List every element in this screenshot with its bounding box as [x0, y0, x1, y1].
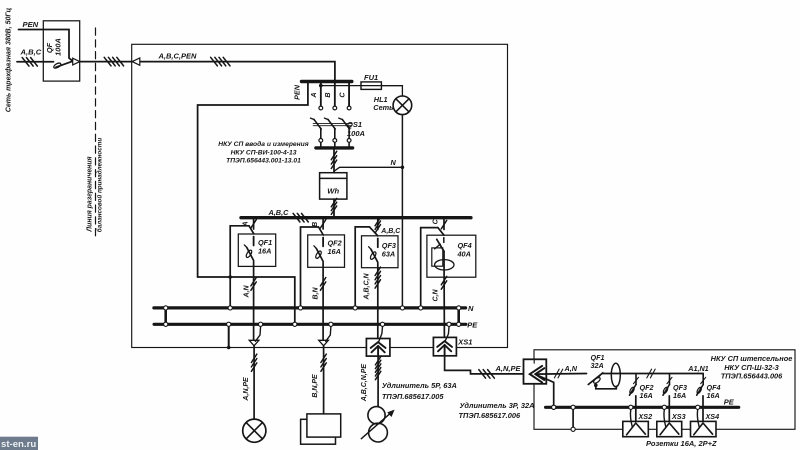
- breaker QF blade and hook: [53, 62, 62, 69]
- RCD trip box QF4: [432, 248, 443, 266]
- svg-text:A,N,PE: A,N,PE: [495, 364, 522, 373]
- PE hook X1: [255, 327, 260, 342]
- breaker QF2 box: [308, 235, 345, 267]
- svg-text:Сеть: Сеть: [373, 103, 393, 112]
- wire N link: [334, 167, 402, 171]
- wire QF4 N lead: [421, 228, 438, 306]
- breaker QF3 box: [362, 236, 399, 268]
- breaker QF1 sub: [588, 374, 602, 385]
- lamp HL1: [393, 96, 412, 115]
- breaker QF3 symbol: [369, 238, 378, 262]
- PE hook X2: [326, 327, 331, 342]
- cable extension 5P: [377, 356, 379, 406]
- svg-text:B,N: B,N: [312, 287, 319, 300]
- svg-text:C: C: [337, 92, 346, 98]
- svg-text:A,B,C,N: A,B,C,N: [364, 273, 371, 301]
- wire PE to frame: [228, 326, 230, 347]
- svg-text:16A: 16A: [258, 247, 271, 256]
- wire QF1 N lead: [230, 226, 249, 306]
- svg-text:ТПЭП.656443.006: ТПЭП.656443.006: [721, 372, 783, 381]
- wire N-PE link: [198, 277, 295, 322]
- heater load rectangles: [301, 419, 336, 444]
- lamp load: [243, 419, 266, 442]
- svg-text:N: N: [391, 158, 397, 167]
- svg-text:A,B,C: A,B,C: [268, 208, 290, 217]
- hash 2 on QF2 out: [320, 278, 325, 286]
- svg-text:FU1: FU1: [364, 73, 378, 82]
- svg-text:C,N: C,N: [433, 289, 440, 302]
- breaker QF3 sub: [662, 374, 672, 396]
- drop A: [320, 83, 322, 106]
- feeder QF1 drop from bus: [253, 219, 255, 229]
- hash 2 on QF1 out: [251, 278, 256, 286]
- main panel box: [132, 44, 508, 347]
- svg-text:32A: 32A: [591, 361, 604, 370]
- svg-text:63A: 63A: [382, 250, 395, 259]
- plug X1 (lighting): [249, 340, 259, 346]
- hash 2 on QF4 out: [441, 276, 446, 284]
- breaker QF2 sub: [629, 374, 639, 396]
- wire PE to frame sub: [572, 407, 574, 427]
- variable autotransformer: [368, 407, 385, 424]
- wire entry A,B,C,PEN: [140, 62, 335, 80]
- hash 1 on QF1 drop: [251, 220, 256, 228]
- svg-text:A: A: [309, 92, 318, 98]
- boundary dashed line: [95, 28, 97, 238]
- svg-text:балансовой принадлежности: балансовой принадлежности: [96, 138, 104, 233]
- svg-text:A,N: A,N: [564, 364, 578, 373]
- blade QF1 plug-in: [249, 226, 254, 234]
- svg-text:XS2: XS2: [638, 412, 653, 421]
- node PE frame bond: [227, 346, 231, 350]
- socket XS2 box: [623, 421, 649, 436]
- wire A,B,C from supply: [17, 61, 54, 63]
- bus N: [154, 306, 466, 309]
- wire Wh to bus: [333, 199, 335, 217]
- svg-text:16A: 16A: [673, 391, 686, 400]
- N-PE bond right: [457, 308, 460, 324]
- wire XS1 to extension 3P: [445, 356, 524, 374]
- QS1 linkage bar: [313, 123, 351, 125]
- hash 3 on lamp cable: [251, 354, 256, 362]
- svg-text:Удлинитель 5Р, 63А: Удлинитель 5Р, 63А: [382, 381, 457, 390]
- wire N riser from lamp: [401, 115, 403, 307]
- cable to lamp: [253, 346, 255, 419]
- svg-text:НКУ СП-ВИ-100-4-13: НКУ СП-ВИ-100-4-13: [231, 149, 297, 156]
- socket XS2 contacts: [627, 423, 646, 435]
- svg-text:B: B: [323, 92, 332, 97]
- blade QF3 plug-in: [370, 227, 378, 236]
- node QF2 N riser terminal: [298, 306, 302, 310]
- PE hook XS1: [446, 327, 450, 340]
- svg-text:QF: QF: [45, 42, 54, 53]
- hash 1 on QF2 drop: [320, 220, 325, 228]
- node PE frame terminal: [227, 322, 231, 326]
- svg-text:16A: 16A: [707, 391, 720, 400]
- plug box socket inlet: [524, 359, 547, 384]
- svg-text:PEN: PEN: [293, 84, 302, 100]
- wire QF2 sub out: [635, 396, 637, 423]
- breaker QF1 box: [238, 234, 275, 266]
- bus PE: [154, 323, 466, 326]
- node link junction QF1 riser: [228, 275, 232, 279]
- svg-text:A,B,C,PEN: A,B,C,PEN: [158, 52, 198, 61]
- wire PEN from supply: [19, 30, 74, 62]
- wire QF4 sub out: [702, 396, 704, 423]
- svg-text:PE: PE: [467, 320, 478, 329]
- PEN bus bar: [302, 80, 352, 83]
- distribution bus A,B,C: [241, 216, 471, 219]
- blade QF2 plug-in: [319, 227, 324, 235]
- hash 4 on entry wire: [211, 57, 218, 66]
- svg-text:XS3: XS3: [671, 412, 686, 421]
- feeder QF2 drop from bus: [322, 219, 324, 229]
- hash 3 above Wh: [331, 151, 336, 159]
- svg-text:QS1: QS1: [347, 120, 362, 129]
- switch QS1 pole A: [311, 83, 323, 148]
- PE pick XS2: [630, 410, 632, 428]
- hash 3 on QF3 drop: [375, 217, 380, 225]
- svg-text:st-en.ru: st-en.ru: [1, 439, 36, 450]
- svg-text:Сеть трехфазная 380В, 50Гц: Сеть трехфазная 380В, 50Гц: [6, 7, 13, 112]
- wire to FU1: [321, 85, 403, 87]
- bus PE sub: [546, 406, 739, 409]
- svg-text:B: B: [312, 222, 319, 227]
- svg-text:Розетки 16А, 2P+Z: Розетки 16А, 2P+Z: [646, 439, 717, 448]
- svg-text:НКУ СП ввода и измерения: НКУ СП ввода и измерения: [218, 140, 308, 148]
- QS1 lower bus bar: [316, 146, 353, 149]
- RCD torus QF4: [435, 260, 454, 270]
- hash 4 on wire before boundary: [104, 57, 111, 66]
- hash 3 on A,B,C supply wire: [22, 58, 29, 67]
- drop B: [334, 83, 336, 106]
- wire FU1 to HL1: [381, 86, 402, 96]
- wire QF3 out: [377, 263, 379, 342]
- svg-text:16A: 16A: [328, 247, 341, 256]
- wire QF2 out: [322, 263, 324, 341]
- hash 4 on QF3 out: [375, 267, 380, 275]
- svg-text:НКУ СП-Ш-32-3: НКУ СП-Ш-32-3: [724, 363, 779, 372]
- wire QF1 to bus A1,N1: [602, 373, 703, 375]
- node FU1 tap on drop A: [319, 84, 323, 88]
- drop C: [348, 83, 350, 106]
- wire QF2 N lead: [301, 227, 319, 306]
- svg-text:A,N: A,N: [243, 285, 250, 299]
- sub-panel box: [534, 350, 795, 430]
- svg-text:PEN: PEN: [23, 20, 39, 29]
- switch QS1 pole C: [339, 83, 351, 148]
- socket XS3 contacts: [660, 423, 679, 435]
- hash 1 on QF4 drop: [441, 220, 446, 228]
- chevrons left plug: [530, 366, 545, 383]
- connector box XS1: [433, 337, 456, 355]
- wire QF3 sub out: [668, 396, 670, 423]
- wire QF1 out: [253, 262, 255, 341]
- feeder QF4 drop from bus: [443, 219, 445, 229]
- hash 3 below Wh: [331, 198, 336, 206]
- svg-text:ТПЭП.656443.001-13.01: ТПЭП.656443.001-13.01: [226, 158, 301, 165]
- node QF4 N riser terminal: [419, 306, 423, 310]
- socket XS3 box: [657, 421, 682, 436]
- wire A,N: [535, 373, 586, 376]
- svg-text:A,N,PE: A,N,PE: [243, 377, 250, 402]
- plug X2 (heater): [319, 340, 329, 346]
- node PE link terminal: [293, 322, 297, 326]
- switch QS1 pole B: [325, 83, 337, 148]
- svg-text:Удлинитель 3Р, 32А: Удлинитель 3Р, 32А: [460, 401, 535, 410]
- breaker QF4 box (RCBO): [427, 235, 476, 277]
- hash 2 on A,N wire: [554, 369, 559, 378]
- svg-text:Wh: Wh: [327, 187, 339, 196]
- arrow out of QF: [73, 58, 80, 65]
- PE stub from plug box: [536, 375, 554, 406]
- svg-text:ТПЭП.685617.005: ТПЭП.685617.005: [382, 392, 444, 401]
- wire QF4 out: [443, 252, 445, 342]
- PE pick XS3: [664, 410, 666, 428]
- socket XS4 contacts: [694, 423, 713, 435]
- svg-text:PE: PE: [724, 397, 735, 406]
- watermark st-en.ru: [0, 437, 38, 450]
- hash 5 on extension 5P cable: [375, 357, 380, 365]
- blade QF4 plug-in: [438, 228, 444, 236]
- wire QS1 to Wh: [333, 150, 335, 173]
- svg-text:A,B,C: A,B,C: [20, 48, 42, 57]
- svg-text:N: N: [468, 304, 474, 313]
- node QF3 N riser terminal: [353, 306, 357, 310]
- breaker QF4 sub: [696, 374, 706, 396]
- PE pick XS4: [697, 410, 699, 428]
- hash 3 on heater cable: [321, 354, 326, 362]
- breaker QF1 symbol: [244, 237, 253, 261]
- node QF1 N riser terminal: [228, 306, 232, 310]
- hash 3 on bus: [293, 213, 300, 222]
- wire QF3 N lead: [355, 227, 369, 306]
- hash 2 on A1,N1 bus: [647, 369, 652, 378]
- wire QF to panel: [80, 61, 133, 63]
- PE hook feeder 3: [379, 327, 383, 342]
- svg-text:XS1: XS1: [457, 338, 472, 347]
- breaker QF4 symbol: [443, 238, 445, 243]
- svg-text:40A: 40A: [457, 250, 471, 259]
- connector box feeder 3: [366, 339, 390, 357]
- arrow into panel: [132, 58, 140, 65]
- circuit breaker QF 100A box: [43, 21, 79, 81]
- cable to heater: [323, 346, 325, 414]
- svg-text:ТПЭП.685617.006: ТПЭП.685617.006: [459, 411, 521, 420]
- node lamp N riser terminal: [400, 306, 404, 310]
- RCD torus sub QF1: [611, 363, 620, 387]
- node N link junction: [401, 166, 405, 170]
- meter Wh box: [320, 173, 347, 199]
- svg-text:16A: 16A: [640, 391, 653, 400]
- socket XS4 box: [691, 421, 717, 436]
- svg-text:XS4: XS4: [705, 412, 720, 421]
- svg-text:B,N,PE: B,N,PE: [312, 374, 319, 398]
- fuse FU1: [361, 82, 381, 90]
- svg-text:100A: 100A: [54, 38, 63, 56]
- breaker QF2 symbol: [314, 238, 323, 262]
- PEN riser wire to N/PE: [198, 83, 308, 277]
- svg-text:A,B,C: A,B,C: [380, 228, 401, 235]
- feeder QF3 drop from bus: [377, 219, 379, 229]
- hash 3 on extension 3P wire: [479, 370, 486, 379]
- svg-text:100A: 100A: [347, 129, 365, 138]
- svg-text:Линия разграничения: Линия разграничения: [87, 156, 94, 232]
- svg-text:A1,N1: A1,N1: [687, 364, 708, 373]
- N-PE bond left: [164, 308, 167, 324]
- svg-text:A,B,C,N,PE: A,B,C,N,PE: [361, 364, 368, 403]
- RCD sense wire sub QF1: [596, 385, 617, 389]
- svg-text:НКУ СП штепсельное: НКУ СП штепсельное: [711, 354, 793, 363]
